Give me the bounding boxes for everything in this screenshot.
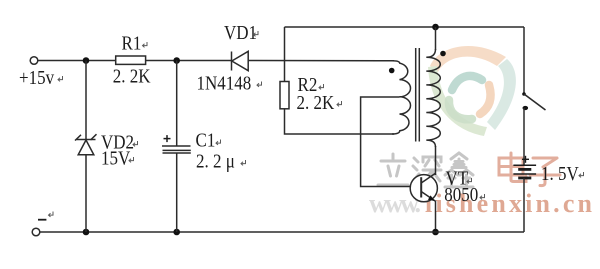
- battery GB polarity plus: [522, 156, 529, 163]
- wire C1 branch top: [176, 61, 178, 147]
- transformer core: [416, 48, 420, 142]
- primary phase dot: [389, 68, 395, 74]
- label minus: [38, 212, 53, 220]
- label 2.2u: [196, 150, 246, 173]
- label VD2: [101, 131, 138, 154]
- right rail mid: [523, 108, 525, 165]
- wire VD2 branch top: [85, 61, 87, 140]
- battery GB 1.5V: [513, 165, 536, 178]
- zener diode VD2: [75, 134, 97, 155]
- junction node top rail secondary: [432, 24, 439, 31]
- resistor R1: [116, 56, 146, 64]
- wire R1 to VD1: [146, 60, 232, 62]
- label 1.5V: [541, 163, 584, 186]
- label C1: [196, 129, 221, 152]
- svg-text:8050: 8050: [444, 184, 478, 207]
- label R1: [122, 32, 148, 55]
- wire emitter to bottom rail: [435, 201, 437, 233]
- label +15v: [19, 67, 63, 90]
- terminal +15v input: [30, 57, 38, 65]
- junction node VD2 bottom: [83, 229, 90, 236]
- wire C1 branch bottom: [176, 153, 178, 232]
- transformer primary winding: [392, 61, 411, 134]
- junction node C1 bottom: [173, 229, 180, 236]
- junction node C1 top: [173, 57, 180, 64]
- wire R2 bottom to primary bottom: [285, 109, 395, 134]
- wire VD1 to transformer primary: [248, 60, 394, 62]
- transformer secondary winding: [426, 49, 440, 147]
- label 2.2K R2 value: [297, 92, 342, 115]
- svg-text:2. 2K: 2. 2K: [113, 65, 151, 88]
- capacitor C1: [162, 146, 191, 153]
- svg-text:+15v: +15v: [19, 67, 55, 90]
- right rail top: [523, 27, 525, 94]
- C1 polarity plus: [164, 135, 171, 142]
- label R2: [298, 74, 324, 97]
- junction node emitter bottom rail: [432, 229, 439, 236]
- switch contact dot: [523, 106, 529, 110]
- secondary phase dot: [440, 51, 446, 57]
- svg-text:VD1: VD1: [224, 22, 257, 45]
- svg-text:R1: R1: [122, 32, 142, 55]
- wire R2 branch vertical from top rail: [284, 27, 286, 82]
- svg-text:2. 2 μ: 2. 2 μ: [196, 150, 235, 173]
- transistor VT 8050: [410, 173, 437, 202]
- watermark text li shen xin dian zi: [378, 153, 473, 188]
- switch S blade: [522, 92, 545, 110]
- junction node VD2 top: [83, 57, 90, 64]
- wire VD2 branch bottom: [85, 155, 87, 232]
- label 1N4148: [197, 72, 262, 95]
- watermark logo: [428, 46, 516, 136]
- wire secondary bottom to collector: [435, 146, 437, 175]
- svg-text:15V: 15V: [101, 147, 131, 170]
- svg-text:1. 5V: 1. 5V: [541, 163, 579, 186]
- terminal minus input: [32, 228, 40, 236]
- svg-text:1N4148: 1N4148: [197, 72, 252, 95]
- svg-text:2. 2K: 2. 2K: [297, 92, 335, 115]
- wire input to R1: [38, 60, 116, 62]
- label VD1: [224, 22, 258, 45]
- label VT: [446, 167, 472, 190]
- bottom rail: [40, 231, 524, 233]
- wire secondary top to rail: [435, 27, 437, 50]
- wire battery to bottom rail: [523, 178, 525, 232]
- wire primary tap to base: [361, 97, 422, 187]
- label 15V: [101, 147, 134, 170]
- resistor R2: [280, 82, 289, 109]
- label 8050: [444, 184, 484, 207]
- top rail: [285, 26, 525, 28]
- diode VD1 1N4148: [232, 51, 249, 70]
- svg-text:C1: C1: [196, 129, 216, 152]
